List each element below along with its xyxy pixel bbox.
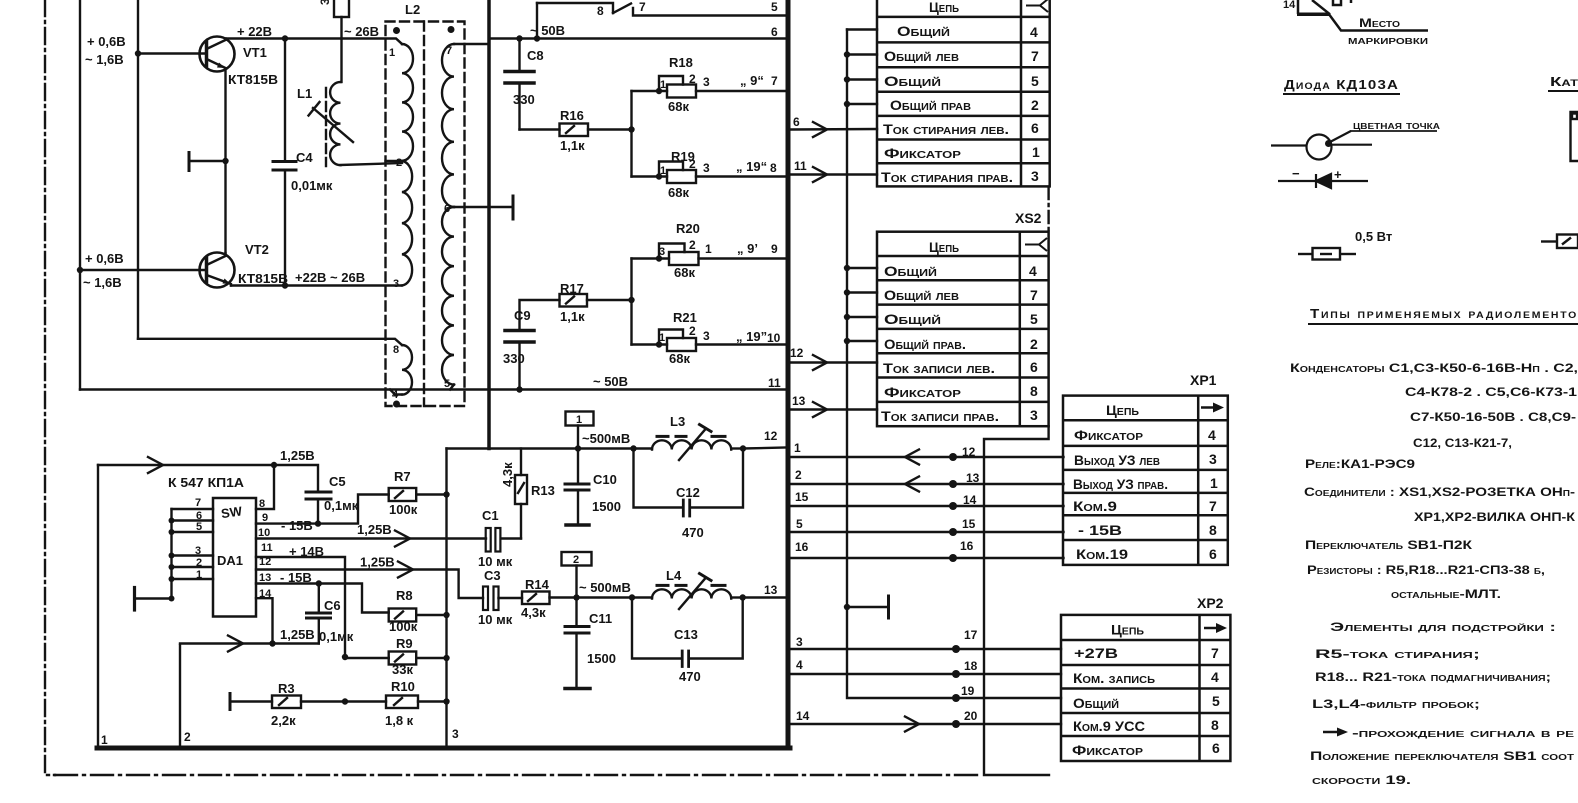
svg-text:13: 13 xyxy=(792,394,806,408)
svg-text:1: 1 xyxy=(659,332,665,344)
svg-text:Ток записи лев.: Ток записи лев. xyxy=(883,360,995,376)
X52 common stub row2 xyxy=(847,291,877,293)
svg-text:остальные-МЛТ.: остальные-МЛТ. xyxy=(1391,587,1501,601)
trimmer resistor R19 xyxy=(632,162,787,184)
svg-text:Реле:КА1-РЭС9: Реле:КА1-РЭС9 xyxy=(1305,457,1415,471)
wire pin4 stub xyxy=(390,390,402,395)
svg-text:+ 0,6В: + 0,6В xyxy=(85,251,124,266)
wire 13 board to XP1 xyxy=(791,483,1064,485)
svg-text:С8: С8 xyxy=(527,48,544,63)
svg-text:100к: 100к xyxy=(389,619,418,634)
wire +22V lower rail to pin3 xyxy=(231,284,402,286)
svg-text:Ком.9 УСС: Ком.9 УСС xyxy=(1073,718,1145,734)
node VT1 emitter junction dot xyxy=(222,158,228,164)
svg-text:Ком.9: Ком.9 xyxy=(1073,498,1117,514)
svg-text:10 мк: 10 мк xyxy=(478,554,513,569)
inductor L1 adjuster diagonal with tee bar xyxy=(309,102,354,142)
X51 common stub row4 xyxy=(847,103,877,105)
arrow on wire 13 xyxy=(813,402,827,417)
svg-text:R10: R10 xyxy=(391,679,415,694)
svg-text:7: 7 xyxy=(1211,645,1219,661)
capacitor C12 tank xyxy=(634,449,744,517)
svg-text:1,25В: 1,25В xyxy=(360,555,395,570)
svg-text:6: 6 xyxy=(771,25,778,39)
wire pin7 stub to thick bus xyxy=(454,43,489,45)
board outline right edge xyxy=(786,0,791,748)
svg-text:ХР2: ХР2 xyxy=(1197,595,1224,611)
node R20 wiper junction dot xyxy=(656,255,662,261)
svg-text:Положение переключателя SВ1: Положение переключателя SВ1 соот xyxy=(1310,749,1574,763)
test point 1 xyxy=(566,412,594,449)
svg-text:Общий: Общий xyxy=(884,73,941,89)
node test point 1 junction dot xyxy=(575,445,581,451)
svg-text:5: 5 xyxy=(796,517,803,531)
DA1 right pin numbers xyxy=(258,498,273,600)
transformer L2 core dashed line xyxy=(423,22,425,407)
svg-text:1: 1 xyxy=(1032,144,1040,160)
svg-text:Общий прав.: Общий прав. xyxy=(884,336,966,352)
svg-text:10: 10 xyxy=(767,331,781,345)
svg-text:~ 26В: ~ 26В xyxy=(344,24,379,39)
svg-text:Диода КД103А: Диода КД103А xyxy=(1284,77,1399,92)
svg-text:+22В ~ 26В: +22В ~ 26В xyxy=(295,270,365,285)
svg-text:~ 500мВ: ~ 500мВ xyxy=(579,580,631,595)
svg-text:DА1: DА1 xyxy=(217,553,243,568)
svg-text:8: 8 xyxy=(770,161,777,175)
arrow left on wire 13 xyxy=(905,477,919,492)
svg-text:R20: R20 xyxy=(676,221,700,236)
svg-text:68к: 68к xyxy=(674,265,695,280)
svg-text:1: 1 xyxy=(794,441,801,455)
svg-text:3: 3 xyxy=(195,545,201,557)
frame dash-dot segment between X51 and X52 xyxy=(1047,187,1049,231)
svg-text:7: 7 xyxy=(639,0,646,14)
capacitor C10 xyxy=(565,449,589,526)
trimmer resistor R20 xyxy=(632,244,787,266)
svg-text:6: 6 xyxy=(1209,546,1217,562)
inductor L1 core dashed line xyxy=(325,88,327,166)
node C9 bottom junction dot xyxy=(516,386,522,392)
svg-text:Цепь: Цепь xyxy=(929,0,959,15)
wire 17 board to XP2 xyxy=(791,648,1061,650)
svg-text:R9: R9 xyxy=(396,636,413,651)
svg-text:Ком.19: Ком.19 xyxy=(1076,546,1128,562)
X52 common stub row1 xyxy=(847,267,877,269)
svg-text:2: 2 xyxy=(184,730,191,744)
arrow on 1.25V wire xyxy=(148,457,163,473)
svg-text:С1: С1 xyxy=(482,508,499,523)
svg-text:- 15В: - 15В xyxy=(280,570,312,585)
svg-text:1,8 к: 1,8 к xyxy=(385,713,414,728)
svg-text:12: 12 xyxy=(962,445,976,459)
svg-text:7: 7 xyxy=(1031,48,1039,64)
svg-text:L3: L3 xyxy=(670,414,685,429)
svg-text:С3: С3 xyxy=(484,568,501,583)
svg-text:С7-К50-16-50В . С8,С9-: С7-К50-16-50В . С8,С9- xyxy=(1410,410,1576,424)
frame dash-dot left border xyxy=(45,0,55,775)
node L3 right junction dot xyxy=(740,445,746,451)
svg-text:1: 1 xyxy=(660,79,666,91)
svg-text:15: 15 xyxy=(795,490,809,504)
svg-text:3: 3 xyxy=(703,161,710,175)
svg-text:13: 13 xyxy=(259,572,271,584)
svg-text:4: 4 xyxy=(392,389,399,401)
svg-text:5: 5 xyxy=(1031,73,1039,89)
svg-text:С4-К78-2 . С5,С6-К73-1: С4-К78-2 . С5,С6-К73-1 xyxy=(1405,385,1577,399)
svg-text:С12: С12 xyxy=(676,485,700,500)
svg-text:14: 14 xyxy=(259,588,272,600)
wire 6 to X51 xyxy=(791,128,877,131)
svg-text:5: 5 xyxy=(196,521,202,533)
svg-text:0,5 Вт: 0,5 Вт xyxy=(1355,229,1392,244)
diode body figure xyxy=(1271,131,1372,160)
svg-text:Кат: Кат xyxy=(1550,74,1578,89)
annotation marking place figure xyxy=(1297,0,1428,31)
node SB1 rail junction dot xyxy=(534,35,540,41)
capacitor C3 electrolytic xyxy=(483,587,522,611)
inductor L4 variable xyxy=(632,574,743,610)
wire SB1 source from 50V rail xyxy=(536,3,538,39)
frame dash-dot bottom border xyxy=(55,774,982,776)
resistor R14 xyxy=(522,592,632,605)
board outline left edge lower xyxy=(97,465,99,747)
common bus dots X52 xyxy=(844,265,850,344)
capacitor C11 xyxy=(565,598,590,689)
svg-text:Общий лев: Общий лев xyxy=(884,48,959,64)
switch SB1 xyxy=(537,3,786,16)
node C4 bottom junction dot xyxy=(282,282,288,288)
resistor R9 xyxy=(345,652,447,665)
svg-text:L1: L1 xyxy=(297,86,312,101)
svg-text:3: 3 xyxy=(1030,407,1038,423)
svg-text:11: 11 xyxy=(794,159,807,173)
node pin8 riser junction dot xyxy=(271,462,277,468)
XP1 header pin arrow symbol xyxy=(1201,403,1224,413)
svg-text:33к: 33к xyxy=(392,662,413,677)
svg-text:3: 3 xyxy=(659,246,665,258)
svg-text:R18... R21-тока подмагничиван: R18... R21-тока подмагничивания; xyxy=(1315,670,1551,684)
svg-text:3: 3 xyxy=(1031,168,1039,184)
svg-text:цветная точка: цветная точка xyxy=(1353,118,1440,132)
arrow on wire 11 xyxy=(813,167,827,182)
svg-text:7: 7 xyxy=(195,497,201,509)
arrow on pin12 wire xyxy=(398,562,413,578)
capacitor C5 xyxy=(274,465,331,524)
svg-text:Соединители : ХS1,ХS2-РОЗЕТКА: Соединители : ХS1,ХS2-РОЗЕТКА ОНп- xyxy=(1304,485,1575,499)
node pin14 junction dot xyxy=(269,640,275,646)
svg-text:0,01мк: 0,01мк xyxy=(291,178,333,193)
svg-text:9: 9 xyxy=(771,242,778,256)
svg-text:100к: 100к xyxy=(389,502,418,517)
svg-text:ХР1,ХР2-ВИЛКА ОНП-К: ХР1,ХР2-ВИЛКА ОНП-К xyxy=(1414,510,1576,524)
svg-text:R3: R3 xyxy=(278,681,295,696)
arrow on wire 6 xyxy=(813,122,827,137)
svg-text:R14: R14 xyxy=(525,577,550,592)
wire 16 board to XP1 xyxy=(791,557,1064,559)
diode symbol xyxy=(1278,174,1368,188)
wire vertical x80 from top to VT2 base tee and down to 50V rail corner xyxy=(79,0,81,390)
svg-text:R17: R17 xyxy=(560,281,584,296)
node R7 right junction dot xyxy=(443,491,449,497)
svg-text:1: 1 xyxy=(660,165,666,177)
svg-text:скорости 19.: скорости 19. xyxy=(1312,773,1411,787)
svg-text:1: 1 xyxy=(1210,475,1218,491)
svg-text:4,3к: 4,3к xyxy=(521,605,546,620)
svg-text:3: 3 xyxy=(796,635,803,649)
svg-text:Общий: Общий xyxy=(1073,695,1119,711)
node C8 top junction dot xyxy=(516,35,522,41)
svg-text:6: 6 xyxy=(1212,740,1220,756)
svg-text:7: 7 xyxy=(446,45,452,57)
svg-text:С10: С10 xyxy=(593,472,617,487)
svg-text:330: 330 xyxy=(513,92,535,107)
node R8 right junction dot xyxy=(443,612,449,618)
svg-text:3: 3 xyxy=(703,329,710,343)
svg-text:8: 8 xyxy=(1211,717,1219,733)
svg-text:2: 2 xyxy=(689,157,696,171)
svg-text:- 15В: - 15В xyxy=(1078,522,1122,538)
wire pin8 riser xyxy=(256,465,274,509)
svg-text:3: 3 xyxy=(1209,451,1217,467)
svg-text:7: 7 xyxy=(1209,498,1217,514)
svg-text:11: 11 xyxy=(261,542,273,554)
X52 shell extension line xyxy=(984,426,1049,775)
svg-text:Цепь: Цепь xyxy=(1106,402,1139,418)
svg-text:4: 4 xyxy=(796,658,803,672)
svg-text:С5: С5 xyxy=(329,474,346,489)
capacitor C4 xyxy=(273,39,296,286)
svg-text:Ком. запись: Ком. запись xyxy=(1073,670,1155,686)
wire 13 to X52 xyxy=(791,408,877,410)
connector table XP2 xyxy=(1061,615,1230,761)
svg-text:+ 14В: + 14В xyxy=(289,544,324,559)
X51 table texts xyxy=(881,0,1040,185)
svg-text:КТ815В: КТ815В xyxy=(228,72,278,87)
svg-text:С11: С11 xyxy=(589,611,612,626)
svg-text:1,25В: 1,25В xyxy=(280,448,315,463)
wire link R18-R19 xyxy=(630,91,632,177)
heading types of components xyxy=(1308,306,1578,324)
svg-text:С12, С13-К21-7,: С12, С13-К21-7, xyxy=(1413,436,1512,450)
X51 common stub row2 xyxy=(847,53,877,55)
wire number dots XP2 xyxy=(952,645,960,728)
svg-text:17: 17 xyxy=(964,628,978,642)
X52 header socket symbol xyxy=(1025,238,1047,251)
svg-text:1,1к: 1,1к xyxy=(560,138,585,153)
svg-text:Общий: Общий xyxy=(884,263,937,279)
node R21 wiper junction dot xyxy=(656,341,662,347)
transformer L2 primary winding 2-3 xyxy=(402,161,412,285)
wire pin13 xyxy=(256,584,389,613)
capacitor C13 tank xyxy=(632,598,743,667)
svg-text:+ 0,6В: + 0,6В xyxy=(87,34,126,49)
svg-text:Ток стирания лев.: Ток стирания лев. xyxy=(883,121,1009,137)
heading KATUSHKI cut xyxy=(1548,74,1578,91)
wire 20 board to XP2 xyxy=(791,723,1061,725)
capacitor C1 electrolytic xyxy=(486,528,521,552)
transformer L2 polarity dot winding4 xyxy=(393,401,400,408)
resistor top vertical cropped xyxy=(334,0,349,39)
svg-text:2: 2 xyxy=(689,72,696,86)
svg-text:Цепь: Цепь xyxy=(1111,622,1144,638)
svg-text:Общий лев: Общий лев xyxy=(884,287,959,303)
svg-text:R21: R21 xyxy=(673,310,697,325)
transformer L2 primary winding 1-2 xyxy=(402,44,413,161)
text signal arrow line xyxy=(1323,726,1575,740)
svg-text:2: 2 xyxy=(396,157,402,169)
resistor right column symbol cut xyxy=(1541,235,1578,249)
wire 11 to X51 xyxy=(791,173,877,175)
node R10 right junction dot xyxy=(443,698,449,704)
svg-text:С6: С6 xyxy=(324,598,341,613)
resistor R13 vertical xyxy=(515,449,527,539)
svg-text:VТ1: VТ1 xyxy=(243,45,267,60)
wire pin5 to rail xyxy=(450,385,454,390)
svg-text:~ 50В: ~ 50В xyxy=(530,23,565,38)
svg-text:3: 3 xyxy=(318,0,332,5)
svg-text:2: 2 xyxy=(689,324,696,338)
common bus vertical outside board xyxy=(847,30,1061,699)
arrow on wire 20 xyxy=(905,717,919,732)
connector table X51 xyxy=(877,0,1050,186)
svg-text:L2: L2 xyxy=(405,2,420,17)
svg-text:VТ2: VТ2 xyxy=(245,242,269,257)
thick feed bus line from top xyxy=(487,0,491,449)
L2 pin number labels xyxy=(389,45,452,401)
svg-text:С9: С9 xyxy=(514,308,531,323)
wire vertical x138 from top to VT1 base node, down to pin8 wire corner xyxy=(137,0,139,339)
svg-text:8: 8 xyxy=(597,4,604,18)
trimmer resistor R18 xyxy=(632,76,787,98)
XP2 header pin arrow symbol xyxy=(1204,623,1227,633)
svg-text:1: 1 xyxy=(196,569,202,581)
svg-text:5: 5 xyxy=(771,0,778,14)
svg-text:2,2к: 2,2к xyxy=(271,713,296,728)
arrow on wire 12 xyxy=(813,355,827,370)
wire 12 to X52 xyxy=(791,361,877,363)
wire VT1 base xyxy=(138,52,207,54)
wire +22V top rail xyxy=(226,39,403,45)
svg-text:2: 2 xyxy=(689,238,696,252)
diode color dot xyxy=(1325,140,1332,147)
svg-text:Выход УЗ прав.: Выход УЗ прав. xyxy=(1073,476,1168,492)
svg-text:Общий: Общий xyxy=(897,23,950,39)
wire VT2 base xyxy=(80,269,207,271)
svg-text:1,25В: 1,25В xyxy=(280,627,315,642)
svg-text:10: 10 xyxy=(258,527,270,539)
svg-text:Ток записи прав.: Ток записи прав. xyxy=(881,408,999,424)
svg-text:L3,L4-фильтр пробок;: L3,L4-фильтр пробок; xyxy=(1312,697,1480,711)
X51 common stub row3 xyxy=(847,78,877,80)
X52 table texts xyxy=(881,239,1038,424)
node VT2 base junction dot xyxy=(77,267,83,273)
svg-text:Типы применяемых радиолемент: Типы применяемых радиолементо xyxy=(1310,306,1578,321)
svg-text:5: 5 xyxy=(444,378,450,390)
wire L3 out to edge xyxy=(743,448,786,449)
svg-text:1: 1 xyxy=(389,47,395,59)
svg-text:Фиксатор: Фиксатор xyxy=(884,384,961,400)
transistor VT1 xyxy=(200,37,235,162)
svg-text:4,3к: 4,3к xyxy=(500,462,515,487)
svg-text:5: 5 xyxy=(1212,693,1220,709)
inductor L1 winding with trimmer stroke xyxy=(330,39,402,166)
svg-text:Общий: Общий xyxy=(884,311,941,327)
DA1 left pins ground bus xyxy=(135,509,214,610)
svg-text:Фиксатор: Фиксатор xyxy=(1074,427,1143,443)
capacitor C6 xyxy=(307,584,331,644)
svg-text:9: 9 xyxy=(262,512,268,524)
svg-text:„ 9“: „ 9“ xyxy=(740,73,764,88)
svg-text:Конденсаторы С1,С3-К50-6-16В: Конденсаторы С1,С3-К50-6-16В-Нп . С2, xyxy=(1290,361,1578,375)
svg-text:Фиксатор: Фиксатор xyxy=(1072,742,1143,758)
svg-text:4: 4 xyxy=(1208,427,1216,443)
trimmer resistor R21 xyxy=(632,330,787,352)
svg-text:1: 1 xyxy=(101,733,108,747)
svg-text:+: + xyxy=(1334,167,1342,182)
svg-text:1: 1 xyxy=(576,414,582,426)
svg-text:~ 1,6В: ~ 1,6В xyxy=(85,52,124,67)
common bus dots X51 xyxy=(844,51,850,107)
DA1 ground bus junction dots xyxy=(169,518,175,602)
X52 common stub row3 xyxy=(847,316,877,318)
svg-text:Элементы для подстройки :: Элементы для подстройки : xyxy=(1330,620,1556,634)
svg-text:R8: R8 xyxy=(396,588,413,603)
wire pin12 to C3 xyxy=(256,570,483,599)
wire pin10 to C1 xyxy=(256,537,486,539)
transformer L2 winding 8-4 xyxy=(402,345,412,395)
wire pin9 to R7 xyxy=(256,495,389,524)
XP2 table texts xyxy=(1072,622,1220,759)
svg-text:330: 330 xyxy=(503,351,525,366)
inductor L3 variable xyxy=(634,425,744,461)
svg-text:470: 470 xyxy=(679,669,701,684)
resistor R8 xyxy=(389,609,447,622)
svg-text:470: 470 xyxy=(682,525,704,540)
resistor 0.5W symbol xyxy=(1298,248,1356,260)
wire 1.25V arrow wire to pin8 xyxy=(98,464,274,466)
svg-text:19: 19 xyxy=(961,684,975,698)
DA1 left pin numbers xyxy=(195,497,202,581)
wire step from thick bus to resistor bus xyxy=(447,447,490,449)
svg-text:Фиксатор: Фиксатор xyxy=(884,145,961,161)
svg-text:6: 6 xyxy=(1031,120,1039,136)
svg-text:1500: 1500 xyxy=(592,499,621,514)
node R19 wiper junction dot xyxy=(656,173,662,179)
svg-text:8: 8 xyxy=(1209,522,1217,538)
svg-text:8: 8 xyxy=(393,344,399,356)
svg-text:8: 8 xyxy=(259,498,265,510)
resistor R16 xyxy=(520,124,632,137)
svg-text:13: 13 xyxy=(764,583,778,597)
svg-text:14: 14 xyxy=(963,493,977,507)
wire number dots XP1 xyxy=(949,453,957,562)
svg-text:Цепь: Цепь xyxy=(929,239,959,255)
svg-text:Общий прав: Общий прав xyxy=(890,97,971,113)
transformer L2 secondary winding 6-5 xyxy=(442,207,454,385)
arrow on second 1.25V wire xyxy=(228,636,243,652)
wire pin8 long wire xyxy=(138,339,402,345)
svg-text:С4: С4 xyxy=(296,150,313,165)
wire pin2 stub xyxy=(386,160,403,162)
transformer L2 polarity dot winding1 xyxy=(393,27,400,34)
wire 15 board to XP1 xyxy=(791,531,1064,533)
svg-text:1,1к: 1,1к xyxy=(560,309,585,324)
svg-text:20: 20 xyxy=(964,709,978,723)
svg-text:10 мк: 10 мк xyxy=(478,612,513,627)
wire 50V top rail xyxy=(489,37,786,39)
svg-text:14: 14 xyxy=(796,709,810,723)
svg-text:„ 9’: „ 9’ xyxy=(737,241,758,256)
